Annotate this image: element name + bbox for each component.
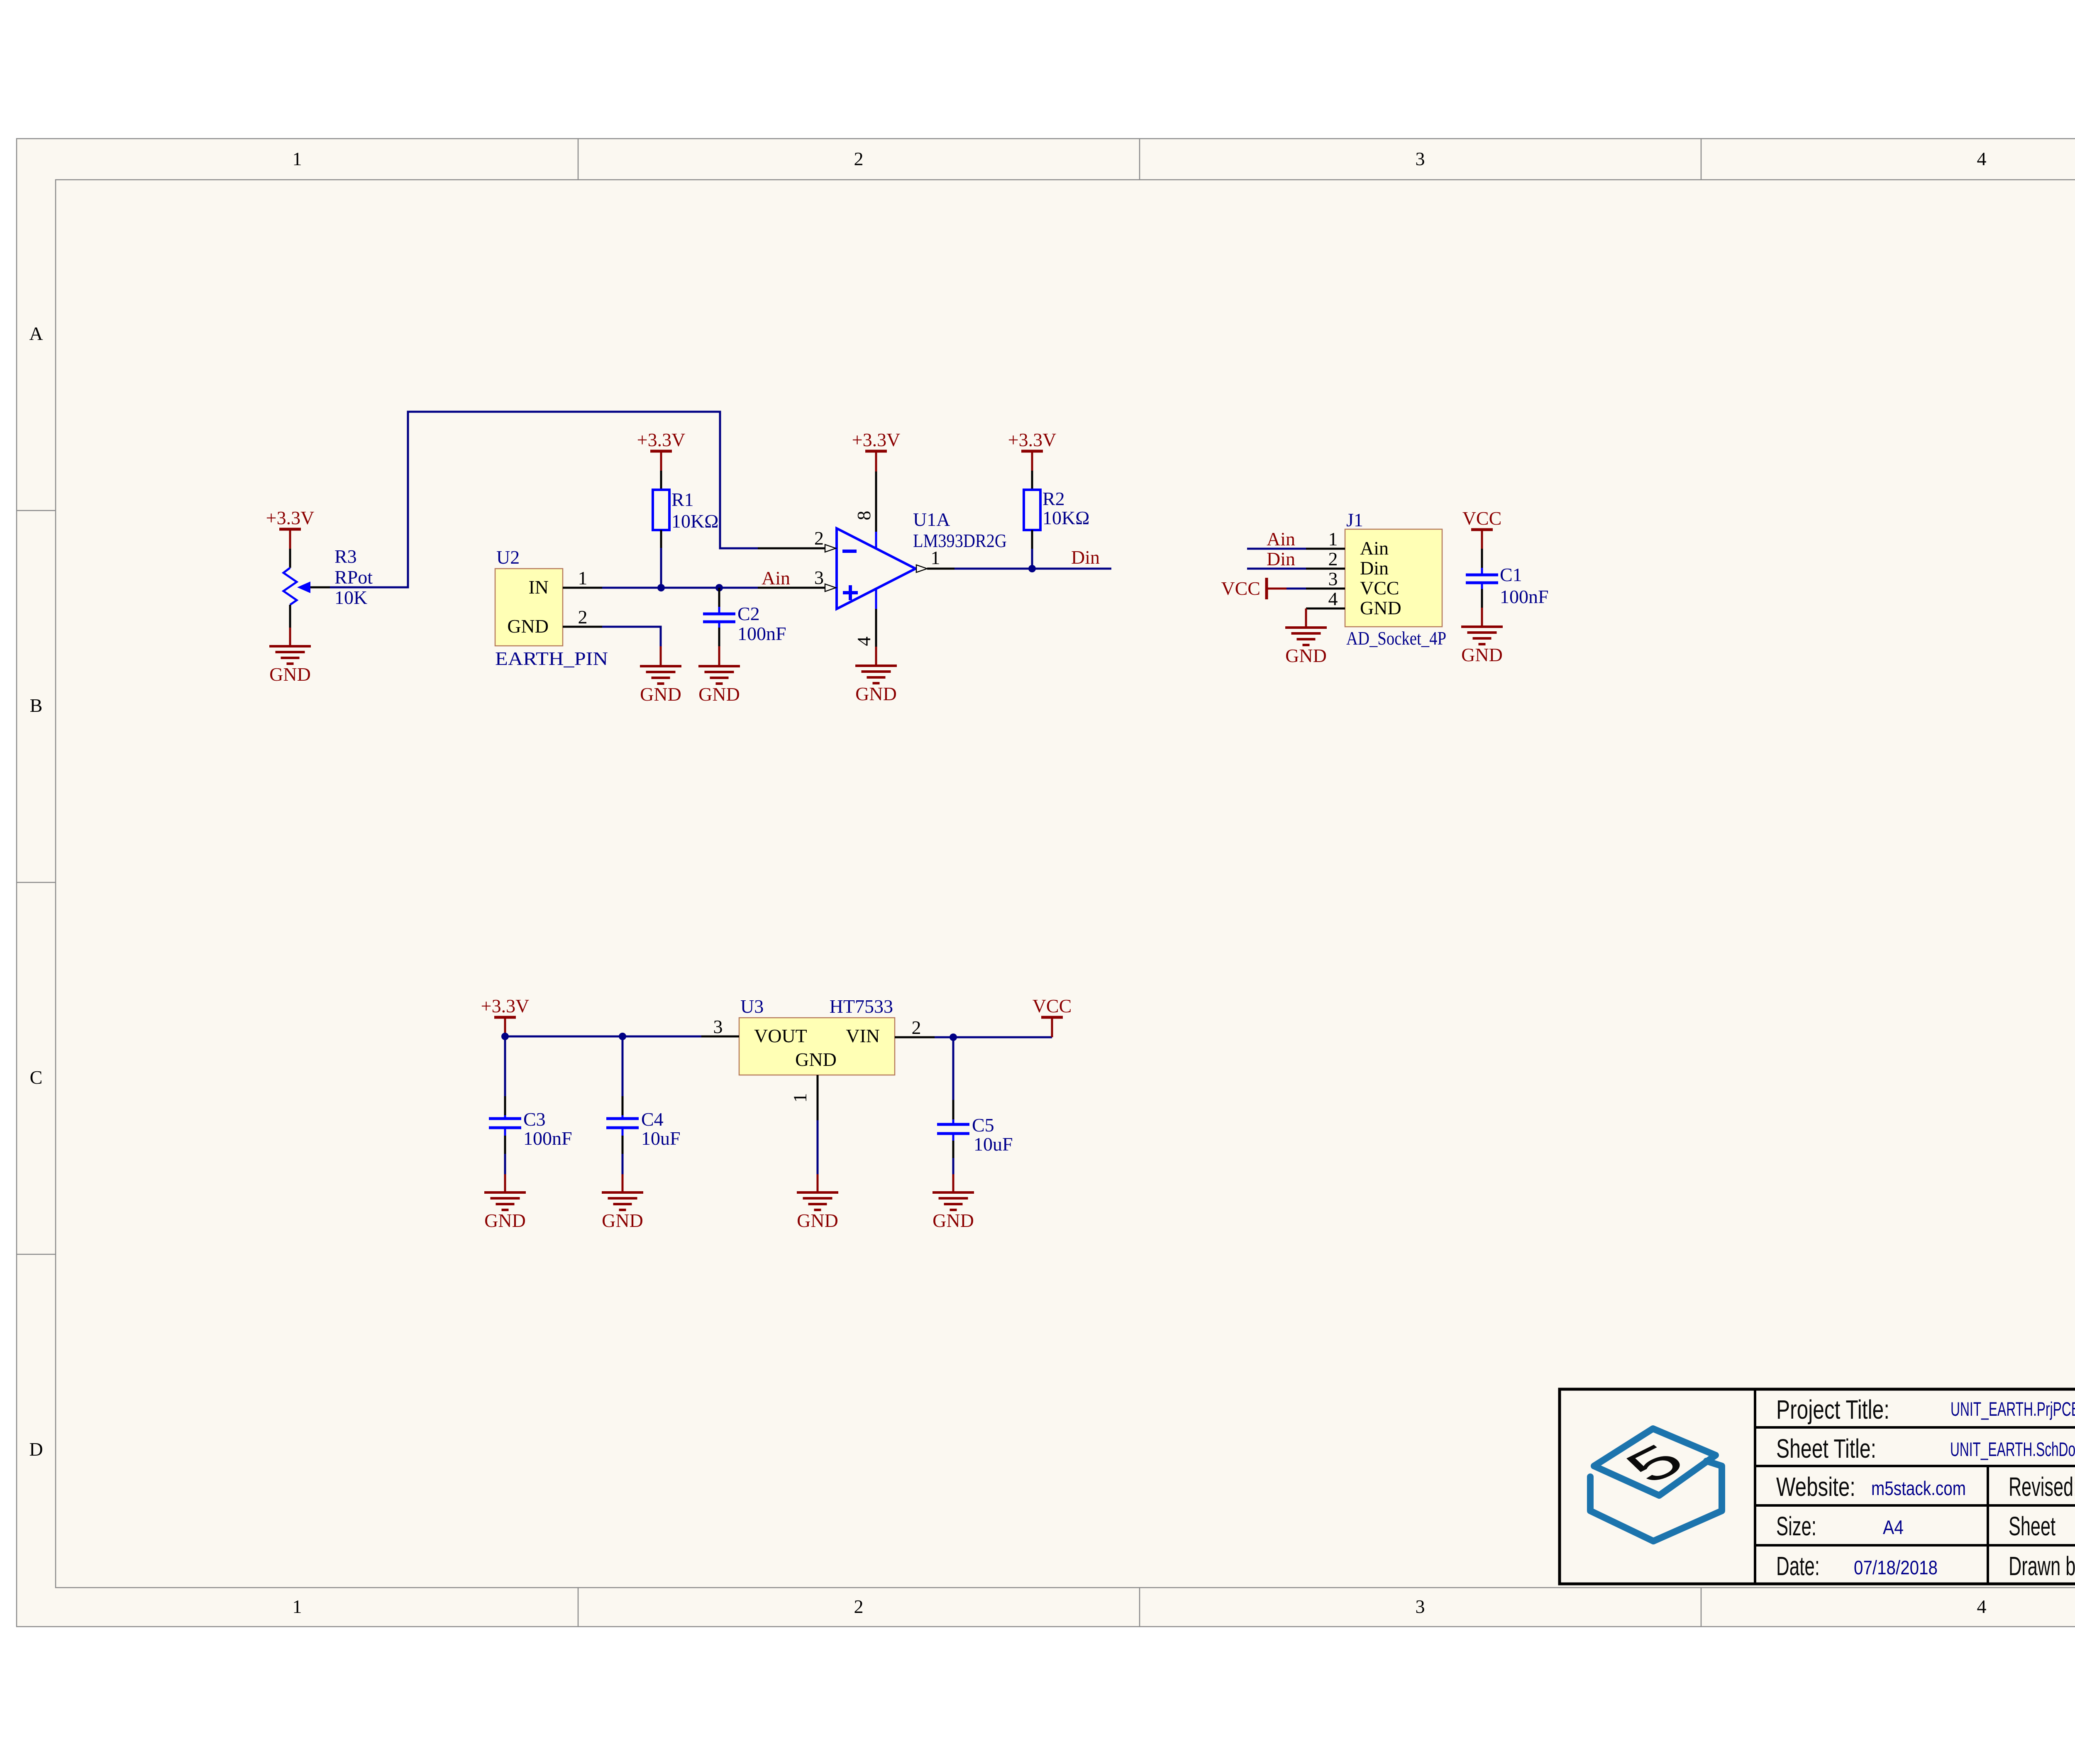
power VCC (VCC rail) bbox=[1033, 995, 1072, 1037]
net label Din (J1) bbox=[1267, 548, 1295, 569]
svg-text:+3.3V: +3.3V bbox=[266, 507, 315, 528]
svg-text:GND: GND bbox=[507, 616, 549, 637]
svg-text:Din: Din bbox=[1267, 548, 1295, 569]
svg-text:GND: GND bbox=[640, 684, 681, 705]
svg-text:B: B bbox=[30, 695, 43, 716]
svg-text:HT7533: HT7533 bbox=[830, 996, 893, 1017]
regulator U3 HT7533 bbox=[701, 996, 935, 1120]
svg-text:C2: C2 bbox=[737, 603, 760, 624]
svg-text:AD_Socket_4P: AD_Socket_4P bbox=[1346, 628, 1446, 649]
svg-text:Sheet: Sheet bbox=[2009, 1511, 2055, 1541]
svg-text:10uF: 10uF bbox=[974, 1134, 1013, 1155]
svg-text:m5stack.com: m5stack.com bbox=[1871, 1477, 1966, 1499]
pin 4 (V-) bbox=[875, 588, 877, 609]
svg-text:C4: C4 bbox=[641, 1109, 664, 1130]
power VCC (C1) bbox=[1462, 508, 1502, 549]
svg-text:U1A: U1A bbox=[913, 509, 950, 530]
power VCC (J1.3) bbox=[1221, 578, 1286, 599]
svg-text:Sheet Title:: Sheet Title: bbox=[1776, 1434, 1876, 1463]
net label Ain (op-amp input) bbox=[762, 567, 790, 589]
power +3.3V (R2) bbox=[1008, 429, 1057, 471]
power +3.3V (R1) bbox=[637, 429, 686, 471]
ground GND (R3) bbox=[269, 628, 311, 685]
svg-text:Size:: Size: bbox=[1776, 1511, 1816, 1541]
svg-text:10KΩ: 10KΩ bbox=[1042, 507, 1089, 528]
ground GND (U1A.4) bbox=[855, 647, 897, 704]
svg-text:VCC: VCC bbox=[1033, 995, 1072, 1016]
junction at C2 bbox=[715, 584, 723, 591]
svg-text:10KΩ: 10KΩ bbox=[671, 511, 718, 532]
svg-text:100nF: 100nF bbox=[737, 623, 786, 644]
junction at C5 bbox=[950, 1033, 957, 1041]
svg-text:C1: C1 bbox=[1500, 564, 1522, 585]
wire U3.2 to VCC bbox=[935, 1036, 1052, 1038]
svg-text:R2: R2 bbox=[1042, 488, 1065, 509]
svg-text:J1: J1 bbox=[1346, 509, 1363, 530]
svg-text:1: 1 bbox=[789, 1093, 810, 1103]
pin 1 (GND) bbox=[817, 1075, 819, 1120]
pin 1 (Ain) bbox=[1306, 548, 1345, 550]
svg-text:LM393DR2G: LM393DR2G bbox=[913, 530, 1007, 551]
svg-text:GND: GND bbox=[797, 1210, 838, 1231]
wire J1.4 to ground bbox=[1305, 608, 1307, 628]
svg-text:VCC: VCC bbox=[1462, 508, 1502, 529]
ground GND (U2.2) bbox=[640, 646, 681, 705]
svg-text:C5: C5 bbox=[972, 1114, 994, 1136]
svg-text:100nF: 100nF bbox=[1500, 586, 1549, 607]
capacitor C5 10uF bbox=[937, 1037, 1013, 1174]
ground GND (C3) bbox=[484, 1174, 526, 1231]
svg-text:IN: IN bbox=[528, 577, 549, 598]
pin 2 (Din) bbox=[1306, 568, 1345, 570]
svg-text:1: 1 bbox=[1328, 528, 1338, 550]
svg-text:GND: GND bbox=[855, 683, 897, 704]
svg-text:10K: 10K bbox=[334, 587, 367, 608]
svg-text:+3.3V: +3.3V bbox=[637, 429, 686, 450]
svg-text:Ain: Ain bbox=[1360, 538, 1389, 559]
svg-text:4: 4 bbox=[1977, 1596, 1987, 1617]
svg-text:C: C bbox=[30, 1067, 43, 1088]
power +3.3V (R3) bbox=[266, 507, 315, 549]
wire Ain to J1.1 bbox=[1247, 548, 1306, 550]
pin 3 (non-inverting input) bbox=[758, 587, 826, 589]
svg-text:Website:: Website: bbox=[1776, 1472, 1855, 1502]
ground GND (C5) bbox=[933, 1174, 974, 1231]
connector J1 AD_Socket_4P bbox=[1306, 509, 1446, 649]
resistor R1 10K bbox=[653, 471, 718, 588]
svg-text:2: 2 bbox=[854, 1596, 864, 1617]
wire U2.2 to ground bbox=[602, 627, 661, 646]
svg-text:RPot: RPot bbox=[334, 567, 373, 588]
pin 1 (IN) bbox=[563, 587, 602, 589]
svg-text:4: 4 bbox=[1328, 588, 1338, 609]
op-amp U1A LM393DR2G bbox=[758, 472, 1007, 647]
svg-text:UNIT_EARTH.SchDoc: UNIT_EARTH.SchDoc bbox=[1950, 1438, 2075, 1460]
svg-text:Project Title:: Project Title: bbox=[1776, 1395, 1889, 1424]
power +3.3V (3.3V rail) bbox=[481, 995, 530, 1036]
wire U3.1 to ground bbox=[817, 1120, 819, 1174]
pin 4 (GND) bbox=[1306, 608, 1345, 610]
svg-text:C3: C3 bbox=[523, 1109, 546, 1130]
junction at R1 bbox=[657, 584, 665, 591]
svg-text:VIN: VIN bbox=[846, 1025, 880, 1046]
svg-text:Revised:: Revised: bbox=[2009, 1472, 2075, 1502]
ground GND (U3.1) bbox=[797, 1174, 838, 1231]
svg-text:GND: GND bbox=[269, 664, 311, 685]
svg-text:+3.3V: +3.3V bbox=[1008, 429, 1057, 450]
wire U1A.1 to Din bbox=[954, 568, 1111, 570]
svg-text:GND: GND bbox=[602, 1210, 643, 1231]
wire R3 wiper to U1A pin 2 bbox=[330, 412, 758, 587]
capacitor C4 10uF bbox=[606, 1036, 681, 1174]
pin 2 (GND) bbox=[563, 626, 602, 628]
connector U2 EARTH_PIN bbox=[495, 547, 608, 669]
svg-text:GND: GND bbox=[933, 1210, 974, 1231]
svg-text:2: 2 bbox=[1328, 548, 1338, 569]
svg-text:3: 3 bbox=[1328, 568, 1338, 589]
svg-text:A4: A4 bbox=[1883, 1516, 1904, 1538]
ground GND (C1) bbox=[1461, 608, 1503, 665]
svg-text:D: D bbox=[29, 1439, 43, 1460]
svg-text:07/18/2018: 07/18/2018 bbox=[1854, 1556, 1938, 1578]
svg-text:VCC: VCC bbox=[1360, 577, 1399, 599]
wire U2.1 / R1 / C2 / U1A.3 (IN net) bbox=[602, 587, 758, 589]
ground GND (C2) bbox=[698, 646, 740, 705]
svg-text:GND: GND bbox=[1285, 645, 1327, 666]
svg-text:+3.3V: +3.3V bbox=[481, 995, 530, 1016]
capacitor C2 100nF bbox=[703, 588, 786, 646]
wire 3.3V rail to U3.3 bbox=[505, 1036, 701, 1038]
svg-text:U3: U3 bbox=[740, 996, 764, 1017]
svg-text:Ain: Ain bbox=[762, 567, 790, 589]
ground GND (C4) bbox=[602, 1174, 643, 1231]
svg-text:1: 1 bbox=[293, 1596, 302, 1617]
svg-text:10uF: 10uF bbox=[641, 1128, 681, 1149]
net label Din (U1A output) bbox=[1071, 547, 1100, 568]
wire VCC to J1.3 bbox=[1286, 588, 1306, 590]
pin 8 (V+) bbox=[875, 472, 877, 532]
wire Din to J1.2 bbox=[1247, 568, 1306, 570]
capacitor C3 100nF bbox=[489, 1036, 572, 1174]
capacitor C1 100nF bbox=[1466, 549, 1549, 608]
svg-text:Drawn by:: Drawn by: bbox=[2009, 1551, 2075, 1581]
pin 3 (VOUT) bbox=[701, 1036, 739, 1038]
ground GND (J1.4) bbox=[1285, 628, 1327, 666]
pin 3 (VCC) bbox=[1306, 588, 1345, 590]
resistor R2 10K bbox=[1024, 471, 1089, 569]
svg-text:U2: U2 bbox=[496, 547, 520, 568]
svg-text:2: 2 bbox=[578, 606, 588, 628]
svg-text:3: 3 bbox=[814, 567, 824, 588]
svg-text:GND: GND bbox=[484, 1210, 526, 1231]
svg-text:8: 8 bbox=[853, 511, 874, 520]
svg-text:3: 3 bbox=[1416, 148, 1425, 169]
svg-text:GND: GND bbox=[698, 684, 740, 705]
pin 2 (VIN) bbox=[895, 1036, 935, 1038]
svg-text:Din: Din bbox=[1071, 547, 1100, 568]
M5Stack logo bbox=[1590, 1429, 1722, 1541]
svg-text:3: 3 bbox=[713, 1016, 723, 1037]
junction at R2 bbox=[1028, 565, 1036, 572]
svg-text:2: 2 bbox=[814, 528, 824, 549]
power +3.3V (U1A.8) bbox=[852, 429, 901, 472]
pin 2 (inverting input) bbox=[758, 547, 826, 550]
svg-text:1: 1 bbox=[578, 567, 588, 589]
svg-text:1: 1 bbox=[293, 148, 302, 169]
svg-text:4: 4 bbox=[1977, 148, 1987, 169]
svg-text:4: 4 bbox=[853, 637, 874, 646]
svg-text:3: 3 bbox=[1416, 1596, 1425, 1617]
svg-text:VCC: VCC bbox=[1221, 578, 1260, 599]
junction at C4 bbox=[619, 1033, 626, 1040]
svg-text:UNIT_EARTH.PrjPCB: UNIT_EARTH.PrjPCB bbox=[1950, 1398, 2075, 1420]
svg-text:GND: GND bbox=[795, 1049, 837, 1070]
svg-text:EARTH_PIN: EARTH_PIN bbox=[495, 648, 608, 669]
svg-text:GND: GND bbox=[1461, 644, 1503, 665]
junction at C3 bbox=[501, 1033, 509, 1040]
svg-text:2: 2 bbox=[912, 1017, 921, 1038]
svg-text:+3.3V: +3.3V bbox=[852, 429, 901, 450]
svg-text:Ain: Ain bbox=[1267, 528, 1295, 550]
title block text bbox=[1776, 1395, 2075, 1581]
svg-text:A: A bbox=[29, 323, 43, 344]
svg-text:1: 1 bbox=[931, 547, 940, 568]
svg-text:R1: R1 bbox=[671, 489, 694, 510]
svg-text:2: 2 bbox=[854, 148, 864, 169]
net label Ain (J1) bbox=[1267, 528, 1295, 550]
svg-text:100nF: 100nF bbox=[523, 1128, 572, 1149]
svg-text:R3: R3 bbox=[334, 546, 357, 567]
svg-text:Date:: Date: bbox=[1776, 1551, 1820, 1581]
svg-text:Din: Din bbox=[1360, 557, 1389, 579]
title block frame bbox=[1560, 1389, 2075, 1584]
pin 1 (output) bbox=[916, 565, 927, 572]
potentiometer R3 bbox=[283, 546, 373, 628]
svg-text:GND: GND bbox=[1360, 597, 1401, 618]
svg-text:VOUT: VOUT bbox=[754, 1025, 807, 1046]
